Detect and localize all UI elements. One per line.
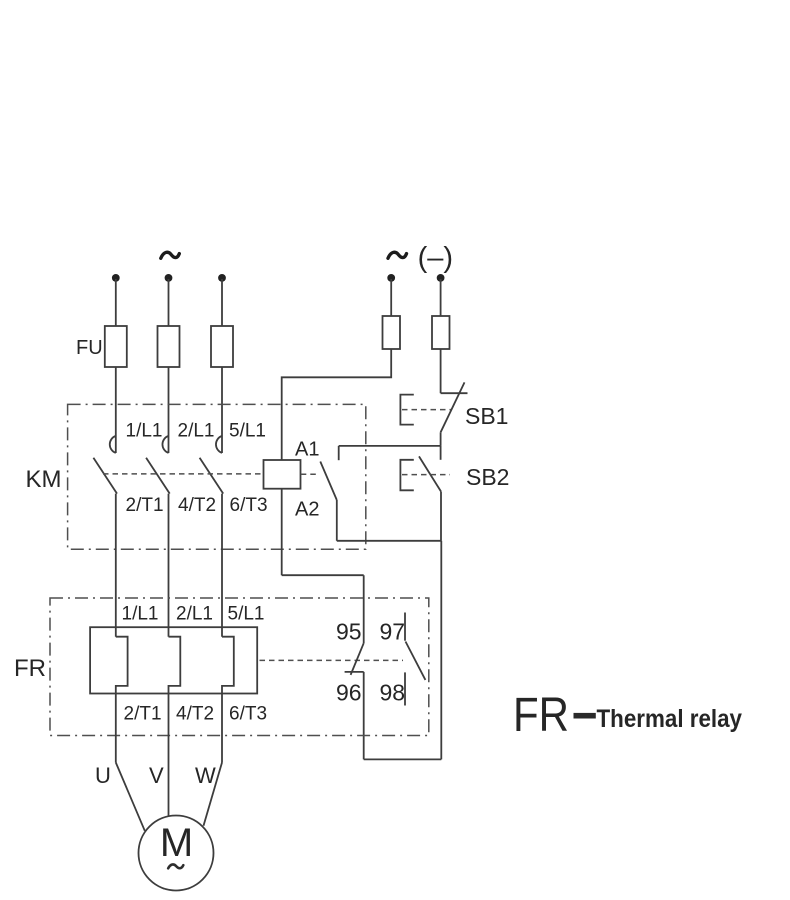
svg-text:1/L1: 1/L1 <box>122 604 159 625</box>
svg-text:W: W <box>195 763 216 788</box>
SB2 pushbutton actuator bracket <box>400 460 413 491</box>
wire L2 fuse to KM contact <box>168 367 170 453</box>
SB2 top terminal stub <box>440 446 442 460</box>
KM mechanical link dashed line <box>103 473 263 475</box>
KM main contact pole2 blade <box>146 458 170 494</box>
FR NC contact blade 95-96 <box>351 643 364 675</box>
motor lead wire W <box>204 763 223 826</box>
svg-text:2/L1: 2/L1 <box>176 604 213 625</box>
SB1 pushbutton actuator bracket <box>400 395 413 425</box>
wire T3 KM to FR heater <box>221 494 223 637</box>
wire L1 drop to fuse <box>115 279 117 326</box>
svg-text:V: V <box>149 763 164 788</box>
motor lead wire U <box>116 763 145 831</box>
SB1 fixed contact bar <box>441 392 468 394</box>
wire L3 fuse to KM contact <box>221 367 223 453</box>
control fuse A <box>383 316 401 349</box>
control supply tilde <box>388 252 407 258</box>
KM aux contact bottom terminal <box>336 500 338 541</box>
KM main contact pole1 fixed arc <box>110 436 116 453</box>
svg-text:FR: FR <box>513 689 569 742</box>
wire control A fuse to coil branch <box>282 349 392 460</box>
control terminal dot A <box>387 274 395 282</box>
FR NC contact 96 fixed bar <box>345 671 364 673</box>
wire junction aux/SB2 bottom <box>337 540 442 542</box>
SB2 blade <box>419 456 441 491</box>
svg-text:A1: A1 <box>295 439 319 461</box>
svg-text:5/L1: 5/L1 <box>229 421 266 442</box>
svg-text:FU: FU <box>76 337 103 359</box>
KM dash-dot enclosure box <box>68 404 366 549</box>
wire coil bottom drop <box>281 489 283 576</box>
wire coil bottom to FR contact <box>282 574 364 576</box>
svg-text:96: 96 <box>336 680 362 706</box>
SB2 actuator dashed link <box>402 474 450 476</box>
FR dash-dot enclosure box <box>50 598 429 736</box>
KM main contact pole2 fixed arc <box>162 436 168 453</box>
fuse FU phase 3 <box>211 326 233 367</box>
wire L1 fuse to KM contact <box>115 367 117 453</box>
wire L2 drop to fuse <box>168 279 170 326</box>
svg-text:6/T3: 6/T3 <box>229 704 267 725</box>
svg-text:5/L1: 5/L1 <box>228 604 265 625</box>
FR heater element jog phase3 <box>222 637 234 763</box>
control fuse B <box>432 316 450 349</box>
wire junction aux/SB1 top <box>339 445 441 447</box>
KM aux contact blade <box>320 462 337 501</box>
KM aux contact top terminal <box>338 446 340 460</box>
svg-text:U: U <box>95 763 111 788</box>
supply terminal dot L2 <box>165 274 173 282</box>
FR heater element jog phase2 <box>169 637 181 763</box>
svg-text:6/T3: 6/T3 <box>230 495 268 516</box>
FR annotation dash <box>574 713 596 719</box>
fuse FU phase 1 <box>105 326 127 367</box>
supply terminal dot L3 <box>218 274 226 282</box>
svg-text:2/T1: 2/T1 <box>126 495 164 516</box>
supply terminal dot L1 <box>112 274 120 282</box>
wire control B drop to fuse <box>440 279 442 316</box>
SB1 blade <box>441 382 465 432</box>
SB2 bottom terminal wire <box>440 491 442 540</box>
fuse FU phase 2 <box>158 326 180 367</box>
motor tilde <box>168 864 183 868</box>
svg-text:KM: KM <box>26 466 62 493</box>
control terminal dot B <box>437 274 445 282</box>
FR mechanical link dashed line <box>260 659 404 661</box>
svg-text:M: M <box>160 821 193 865</box>
svg-text:2/L1: 2/L1 <box>178 421 215 442</box>
wire SB2 down to FR return <box>440 541 442 760</box>
svg-text:98: 98 <box>380 680 406 706</box>
wire FR contact top terminal <box>363 575 365 643</box>
svg-text:2/T1: 2/T1 <box>124 704 162 725</box>
svg-text:97: 97 <box>380 619 406 645</box>
svg-text:A2: A2 <box>295 499 319 521</box>
motor M1 circle <box>139 816 214 891</box>
FR heater element jog phase1 <box>116 637 128 763</box>
svg-text:Thermal relay: Thermal relay <box>597 705 743 733</box>
wire T2 KM to FR heater <box>168 494 170 637</box>
wire FR 96 terminal drop <box>363 672 365 760</box>
svg-text:SB1: SB1 <box>465 403 508 429</box>
FR NO contact 97 top terminal <box>404 613 406 641</box>
KM main contact pole3 fixed arc <box>216 436 222 453</box>
KM main contact pole1 blade <box>93 458 117 494</box>
KM coil rectangle <box>264 460 301 489</box>
SB1 bottom terminal wire <box>440 432 442 446</box>
FR heater body rectangle <box>90 627 257 693</box>
svg-text:4/T2: 4/T2 <box>178 495 216 516</box>
SB1 actuator dashed link <box>402 409 451 411</box>
svg-text:95: 95 <box>336 619 362 645</box>
KM main contact pole3 blade <box>200 458 224 494</box>
wire L3 drop to fuse <box>221 279 223 326</box>
svg-text:FR: FR <box>14 655 46 682</box>
wire control B fuse to SB1 <box>440 349 442 393</box>
FR NO contact 98 bottom terminal <box>404 672 406 705</box>
AC supply tilde over phase lines <box>161 252 180 258</box>
motor lead wire V <box>168 763 170 817</box>
FR NO contact blade 97-98 <box>406 642 426 680</box>
svg-text:SB2: SB2 <box>466 464 509 490</box>
dashed link coil to KM aux contact <box>301 473 319 475</box>
svg-text:1/L1: 1/L1 <box>126 421 163 442</box>
wire T1 KM to FR heater <box>115 494 117 637</box>
svg-text:4/T2: 4/T2 <box>176 704 214 725</box>
wire FR return bottom horizontal <box>364 758 442 760</box>
svg-text:(–): (–) <box>418 242 453 274</box>
wire control A drop to fuse <box>390 279 392 316</box>
